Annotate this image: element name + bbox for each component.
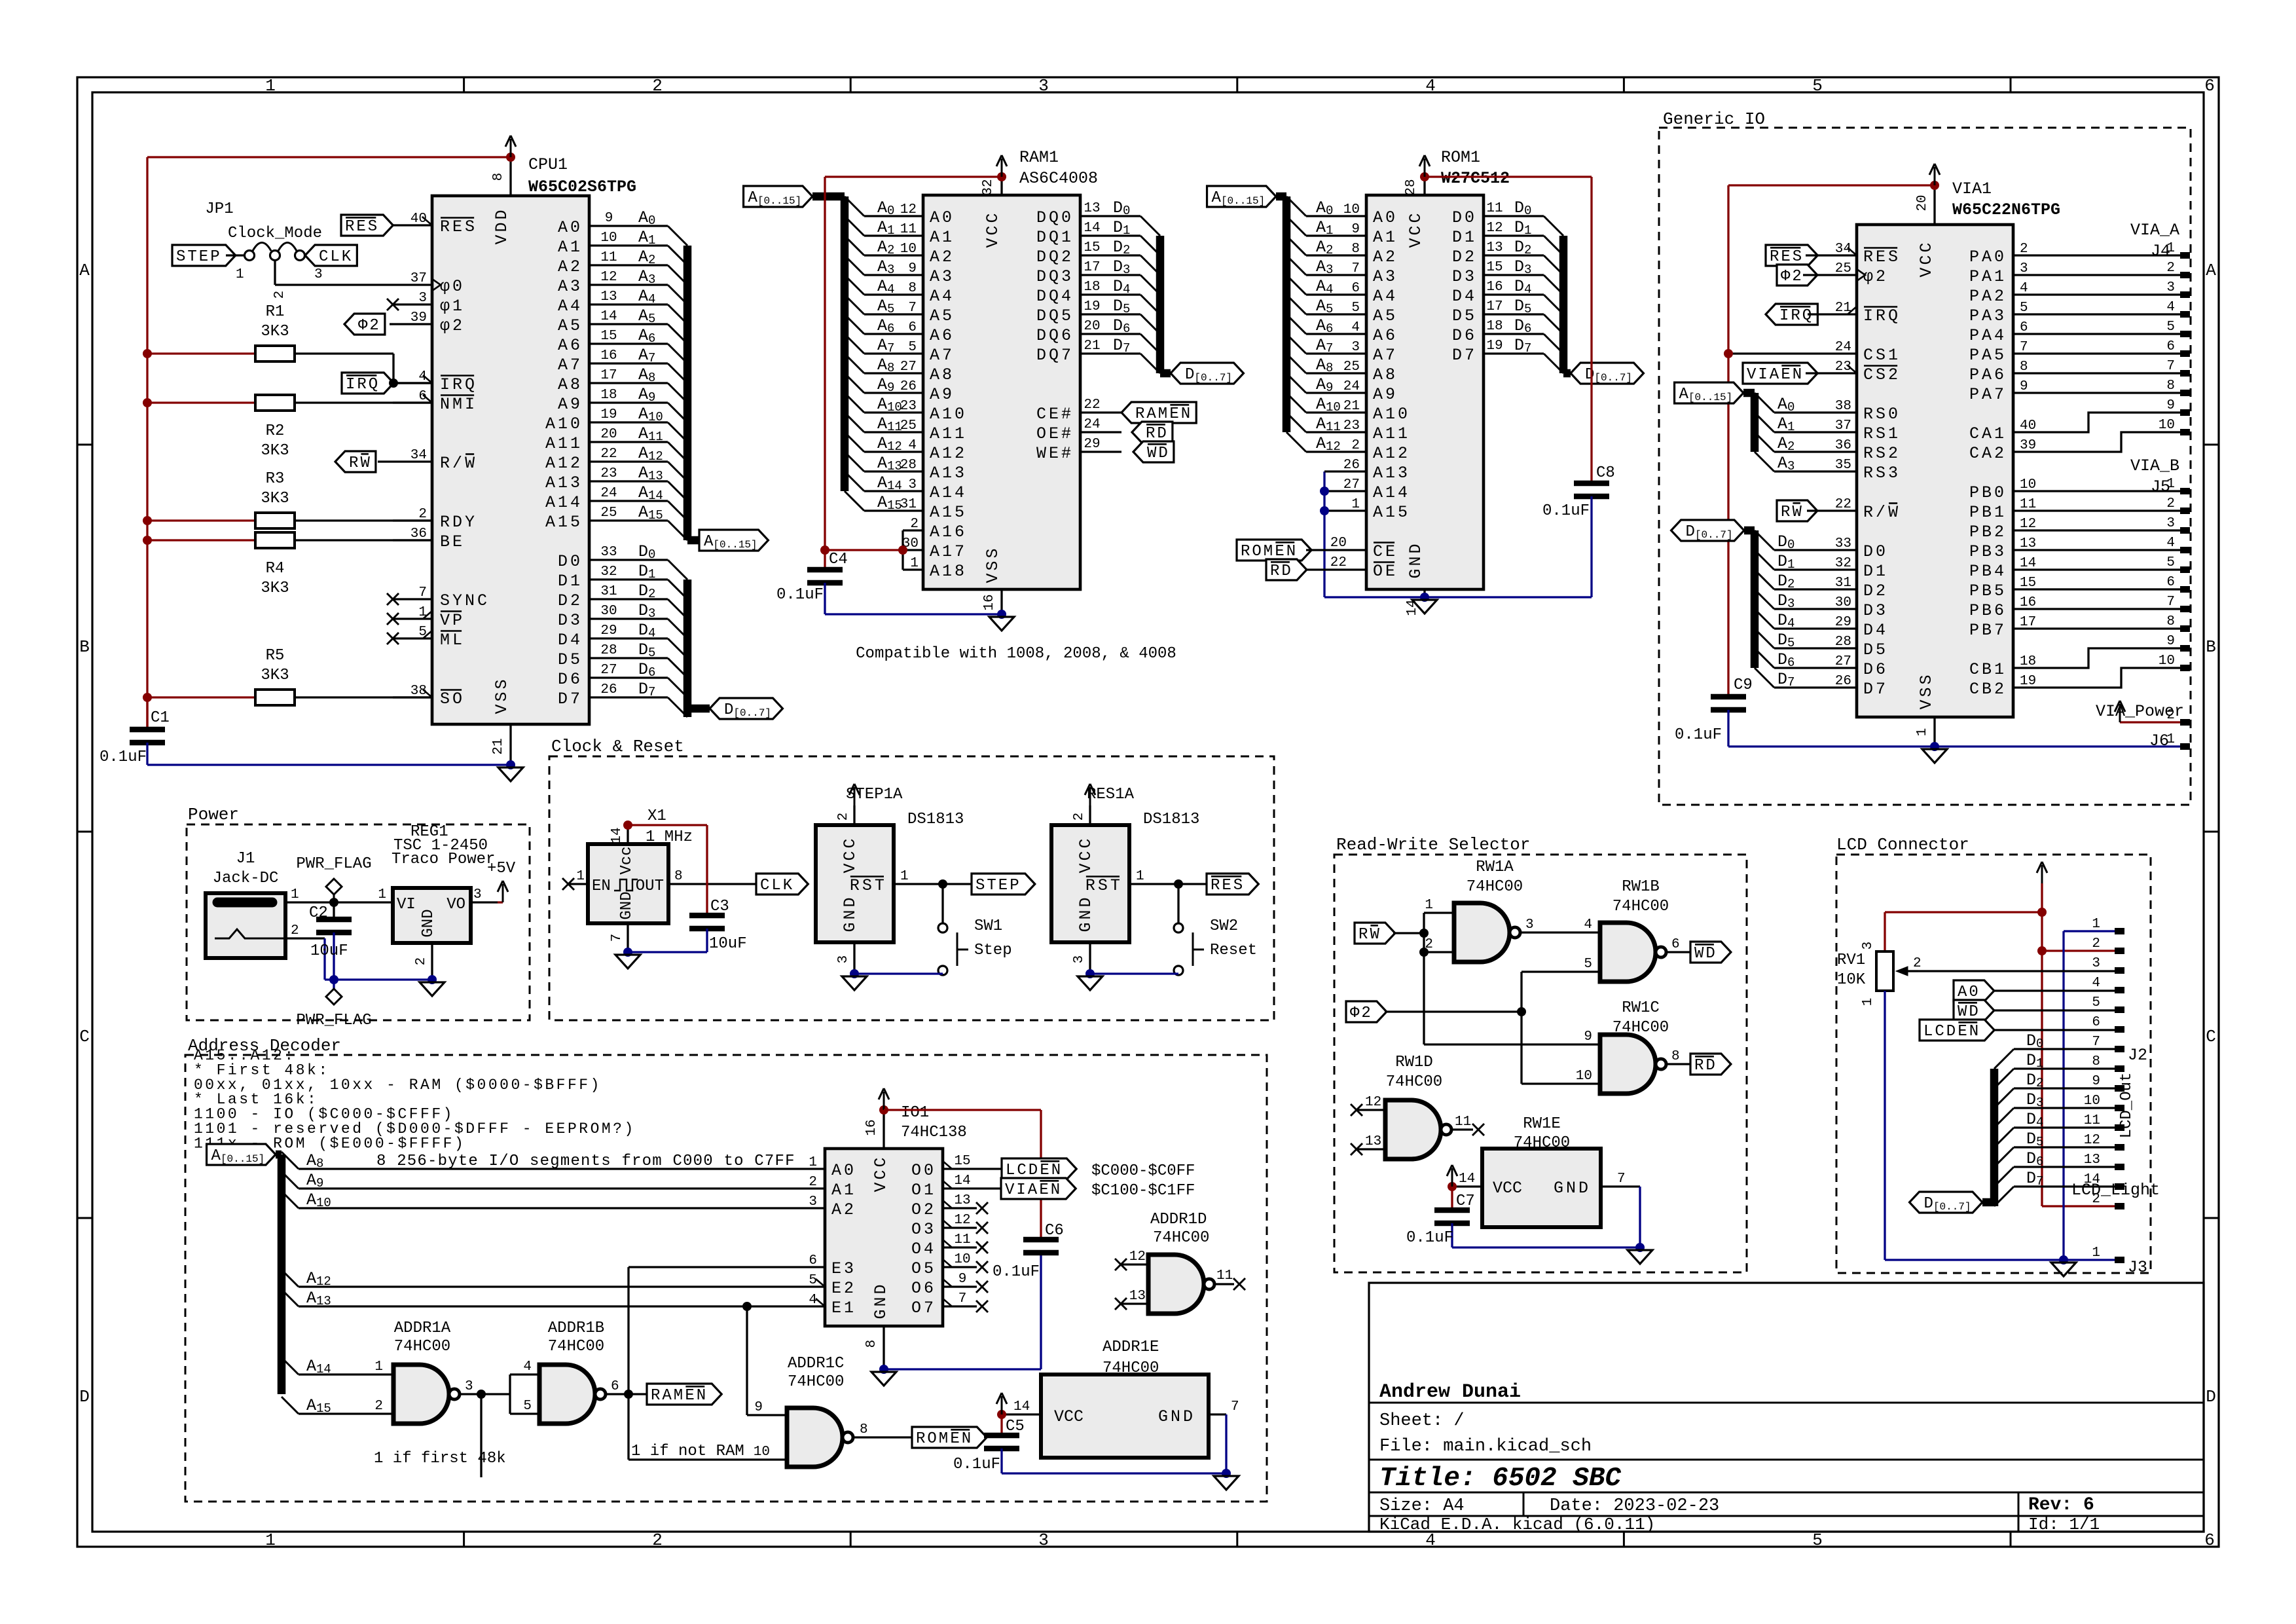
svg-text:A4: A4 <box>1373 287 1398 306</box>
svg-text:RES: RES <box>345 218 379 236</box>
svg-text:Rev: 6: Rev: 6 <box>2028 1495 2094 1515</box>
svg-text:10: 10 <box>2159 654 2175 669</box>
power VCC arrow ADDR1E <box>996 1393 1007 1419</box>
regulator REG1 TSC 1-2450 Traco Power <box>378 823 503 980</box>
svg-text:10: 10 <box>600 231 617 246</box>
svg-text:1 MHz: 1 MHz <box>646 828 693 846</box>
bus D[0..7] CPU <box>683 580 692 717</box>
svg-text:NMI: NMI <box>440 395 477 414</box>
flag WD at LCD <box>1954 1000 2115 1021</box>
svg-text:22: 22 <box>1330 555 1347 570</box>
svg-text:3: 3 <box>2166 280 2175 295</box>
svg-text:PA0: PA0 <box>1969 248 2007 267</box>
svg-text:SO: SO <box>440 690 465 709</box>
svg-text:7: 7 <box>2166 595 2175 610</box>
svg-text:A5: A5 <box>930 306 955 325</box>
svg-text:C7: C7 <box>1456 1192 1475 1210</box>
svg-text:O0: O0 <box>911 1161 936 1180</box>
svg-text:D3: D3 <box>1452 267 1477 286</box>
no-connect x CPU SYNC <box>387 593 399 605</box>
svg-text:13: 13 <box>2084 1153 2100 1168</box>
svg-text:EN: EN <box>950 1430 973 1448</box>
svg-text:1 if first 48k: 1 if first 48k <box>374 1450 506 1467</box>
svg-text:RW1E: RW1E <box>1523 1115 1561 1133</box>
svg-text:25: 25 <box>600 506 617 521</box>
svg-text:7: 7 <box>1231 1399 1239 1414</box>
svg-text:CPU1: CPU1 <box>528 155 568 174</box>
svg-text:37: 37 <box>410 271 427 286</box>
svg-text:RST: RST <box>1085 876 1123 895</box>
svg-text:R4: R4 <box>266 560 285 578</box>
svg-text:RD: RD <box>1270 563 1293 580</box>
svg-text:16: 16 <box>982 594 997 610</box>
svg-text:RS0: RS0 <box>1863 405 1901 424</box>
svg-text:ML: ML <box>440 631 465 650</box>
svg-text:11: 11 <box>1455 1115 1471 1130</box>
svg-text:4: 4 <box>2166 300 2175 315</box>
decoder address wires A8 A9 A10 <box>282 1151 825 1210</box>
svg-text:ADDR1C: ADDR1C <box>788 1355 844 1373</box>
svg-text:5: 5 <box>2166 320 2175 335</box>
svg-text:CS2: CS2 <box>1863 365 1901 384</box>
svg-text:J2: J2 <box>2128 1046 2147 1065</box>
svg-text:A13: A13 <box>1373 464 1410 483</box>
svg-text:3: 3 <box>1038 1530 1049 1550</box>
svg-text:Vcc: Vcc <box>618 846 636 874</box>
svg-text:PWR_FLAG: PWR_FLAG <box>296 1012 371 1029</box>
svg-text:23: 23 <box>600 466 617 481</box>
svg-text:28: 28 <box>1404 179 1419 195</box>
svg-text:E1: E1 <box>831 1299 856 1318</box>
svg-text:GND: GND <box>1076 895 1095 932</box>
svg-text:OUT: OUT <box>636 877 664 895</box>
Address Decoder section box <box>185 1036 1267 1502</box>
wire RW1E gnd <box>1452 1243 1645 1252</box>
svg-text:O1: O1 <box>911 1181 936 1200</box>
power flag PWR_FLAG bottom <box>296 975 371 1029</box>
svg-text:VCC: VCC <box>841 836 860 873</box>
svg-text:1: 1 <box>2166 241 2175 256</box>
svg-text:22: 22 <box>1835 497 1851 512</box>
svg-text:1: 1 <box>576 869 585 884</box>
svg-text:+5V: +5V <box>487 860 516 877</box>
svg-text:VDD: VDD <box>492 207 511 244</box>
connector J3 LCD_Light <box>2071 1181 2160 1277</box>
oscillator X1 1 MHz <box>568 807 756 952</box>
svg-text:SYNC: SYNC <box>440 591 490 610</box>
svg-text:O4: O4 <box>911 1240 936 1259</box>
svg-text:2: 2 <box>809 1175 817 1190</box>
svg-text:1 if not RAM: 1 if not RAM <box>631 1443 744 1460</box>
svg-text:12: 12 <box>1486 221 1503 236</box>
svg-text:Size: A4: Size: A4 <box>1379 1496 1465 1516</box>
svg-text:C3: C3 <box>710 898 729 915</box>
bus flag A[0..15] ROM <box>1207 186 1276 207</box>
no-connect x RW1D in12 <box>1351 1104 1362 1116</box>
svg-text:W: W <box>1370 926 1381 944</box>
svg-text:17: 17 <box>2020 615 2036 630</box>
resistor R1 3K3 <box>147 303 393 383</box>
connector J2 LCD_Out <box>2084 917 2147 1190</box>
svg-text:A16: A16 <box>930 523 967 542</box>
svg-text:GND: GND <box>1158 1407 1195 1426</box>
ground IO1 <box>871 1372 896 1386</box>
svg-text:3: 3 <box>2166 516 2175 531</box>
svg-text:File: main.kicad_sch: File: main.kicad_sch <box>1379 1437 1592 1456</box>
svg-text:ADDR1B: ADDR1B <box>548 1319 604 1337</box>
svg-text:3: 3 <box>1072 955 1087 964</box>
svg-text:7: 7 <box>2020 340 2028 355</box>
flag RES at CPU <box>341 215 393 236</box>
svg-text:4: 4 <box>2020 281 2028 296</box>
svg-text:2: 2 <box>2166 496 2175 511</box>
svg-text:PB3: PB3 <box>1969 542 2007 561</box>
bus D[0..7] RAM <box>1160 236 1171 373</box>
svg-text:A5: A5 <box>558 316 583 335</box>
power flag PWR_FLAG top <box>296 855 371 907</box>
capacitor C8 0.1uF <box>1542 464 1615 597</box>
LCD data wires bus entries <box>1994 1031 2115 1206</box>
CPU data pins D0-D7 with bus entries <box>558 542 687 717</box>
svg-text:PA2: PA2 <box>1969 287 2007 306</box>
svg-text:4: 4 <box>2166 536 2175 551</box>
svg-text:74HC00: 74HC00 <box>394 1338 450 1356</box>
svg-text:D6: D6 <box>1452 326 1477 345</box>
svg-text:GND: GND <box>841 895 860 932</box>
svg-text:A8: A8 <box>558 375 583 394</box>
svg-text:VCC: VCC <box>1076 836 1095 873</box>
svg-text:12: 12 <box>1129 1249 1146 1264</box>
svg-text:A3: A3 <box>930 267 955 286</box>
svg-text:W27C512: W27C512 <box>1441 169 1510 188</box>
svg-text:17: 17 <box>1486 299 1503 314</box>
no-connect x CPU ML <box>387 633 399 644</box>
svg-text:A9: A9 <box>558 395 583 414</box>
svg-text:28: 28 <box>1835 635 1851 650</box>
svg-text:11: 11 <box>954 1232 970 1247</box>
power VCC arrow RES1A <box>1085 784 1095 805</box>
LCD Connector section box <box>1836 835 2151 1273</box>
svg-text:10: 10 <box>2084 1094 2100 1109</box>
svg-text:R: R <box>349 454 360 472</box>
svg-text:0.1uF: 0.1uF <box>993 1263 1040 1281</box>
svg-text:VSS: VSS <box>1917 672 1936 709</box>
svg-text:6: 6 <box>2092 1015 2100 1030</box>
svg-text:6: 6 <box>2204 1530 2215 1550</box>
svg-text:OE#: OE# <box>1036 424 1074 443</box>
ground STEP1A <box>842 976 867 990</box>
svg-text:2: 2 <box>374 1399 383 1414</box>
svg-text:6: 6 <box>2166 339 2175 354</box>
ROM1 data pin wires with bus entries <box>1484 198 1563 373</box>
svg-text:D2: D2 <box>558 591 583 610</box>
flag Phi2 input <box>1346 1001 1522 1022</box>
svg-text:STEP: STEP <box>176 248 222 266</box>
junction R3 rail <box>143 516 152 525</box>
power VCC arrow RW1E <box>1447 1165 1457 1191</box>
svg-text:W: W <box>360 454 371 472</box>
svg-text:DQ4: DQ4 <box>1036 287 1074 306</box>
svg-text:C2: C2 <box>309 904 328 922</box>
svg-text:WD: WD <box>1694 945 1717 963</box>
svg-text:ROM: ROM <box>916 1430 950 1448</box>
svg-text:W: W <box>1888 503 1901 522</box>
svg-text:VCC: VCC <box>983 210 1002 248</box>
nand gate ADDR1D 74HC00 unused <box>1121 1211 1234 1314</box>
svg-text:15: 15 <box>1084 240 1100 255</box>
power +5V arrow <box>487 860 516 902</box>
svg-text:D2: D2 <box>1863 581 1888 600</box>
svg-text:11: 11 <box>2084 1113 2100 1128</box>
svg-text:10K: 10K <box>1837 971 1866 989</box>
svg-text:2: 2 <box>414 957 429 966</box>
svg-text:32: 32 <box>600 564 617 580</box>
svg-text:Jack-DC: Jack-DC <box>213 870 279 887</box>
svg-text:PA4: PA4 <box>1969 326 2007 345</box>
svg-text:A8: A8 <box>1373 365 1398 384</box>
svg-text:B: B <box>2206 637 2216 657</box>
svg-text:8: 8 <box>2166 614 2175 629</box>
svg-text:11: 11 <box>1216 1268 1233 1283</box>
svg-text:Andrew Dunai: Andrew Dunai <box>1379 1381 1521 1403</box>
svg-text:26: 26 <box>600 682 617 697</box>
svg-text:8: 8 <box>2092 1054 2100 1069</box>
ROM1 tie-low bracket A13-A15 <box>1320 471 1366 597</box>
svg-text:20: 20 <box>1084 319 1100 334</box>
svg-text:IRQ: IRQ <box>346 376 380 394</box>
svg-text:A15: A15 <box>545 513 583 532</box>
svg-text:1: 1 <box>2092 917 2100 932</box>
svg-text:RES: RES <box>1770 248 1804 266</box>
svg-text:1: 1 <box>378 887 386 902</box>
svg-text:R: R <box>1358 926 1370 944</box>
flag RD output <box>1690 1054 1731 1075</box>
power VCC arrow STEP1A <box>849 784 860 805</box>
bus A[0..15] RAM <box>812 196 845 491</box>
svg-text:13: 13 <box>1486 240 1503 255</box>
svg-text:18: 18 <box>600 388 617 403</box>
svg-text:D4: D4 <box>1863 621 1888 640</box>
svg-text:W65C22N6TPG: W65C22N6TPG <box>1952 200 2060 219</box>
svg-text:26: 26 <box>1835 674 1851 689</box>
svg-text:74HC00: 74HC00 <box>548 1338 604 1356</box>
svg-text:13: 13 <box>1129 1289 1146 1304</box>
svg-text:CB1: CB1 <box>1969 660 2007 679</box>
svg-text:3: 3 <box>314 267 323 282</box>
supervisor STEP1A DS1813 <box>816 786 972 974</box>
svg-text:A9: A9 <box>1373 385 1398 404</box>
svg-text:13: 13 <box>2020 536 2036 551</box>
svg-text:C: C <box>2206 1027 2216 1046</box>
svg-text:KiCad E.D.A. kicad (6.0.11): KiCad E.D.A. kicad (6.0.11) <box>1379 1515 1655 1534</box>
svg-text:A0: A0 <box>930 208 955 227</box>
RAM1 tie-high bracket A16-A18 <box>820 530 923 570</box>
wire IO1 VCC to C6 <box>884 1110 1041 1240</box>
svg-text:20: 20 <box>600 427 617 442</box>
svg-text:10: 10 <box>2159 418 2175 433</box>
svg-text:9: 9 <box>2166 398 2175 413</box>
svg-text:CA2: CA2 <box>1969 444 2007 463</box>
svg-text:5: 5 <box>809 1273 817 1288</box>
svg-text:J3: J3 <box>2128 1258 2147 1277</box>
svg-text:16: 16 <box>2020 595 2036 610</box>
svg-text:0.1uF: 0.1uF <box>776 586 824 604</box>
wire VCC ROM <box>1425 177 1592 483</box>
svg-text:A13: A13 <box>545 473 583 492</box>
svg-text:74HC00: 74HC00 <box>1467 878 1523 896</box>
svg-text:D1: D1 <box>1863 562 1888 581</box>
svg-text:D7: D7 <box>1452 346 1477 365</box>
wire RES1A gnd <box>1085 969 1178 978</box>
svg-text:Generic IO: Generic IO <box>1663 109 1765 129</box>
svg-text:6: 6 <box>2166 575 2175 590</box>
ground LCD <box>2051 1263 2076 1276</box>
bus A[0..15] decoder <box>276 1154 282 1394</box>
Generic IO section box <box>1659 109 2191 805</box>
svg-text:CA1: CA1 <box>1969 424 2007 443</box>
svg-text:34: 34 <box>410 448 427 463</box>
svg-text:18: 18 <box>1084 280 1100 295</box>
svg-text:8 256-byte I/O segments from C: 8 256-byte I/O segments from C000 to C7F… <box>376 1153 795 1170</box>
svg-text:74HC00: 74HC00 <box>1613 898 1669 915</box>
svg-text:3: 3 <box>2020 261 2028 276</box>
flag LCDEN at O0 <box>1002 1158 1076 1179</box>
svg-text:D2: D2 <box>1452 248 1477 267</box>
CPU1 W65C02S6TPG <box>393 155 636 765</box>
flag RAMEN at RAM CE <box>1121 402 1196 423</box>
wire ADDR1E gnd <box>1002 1469 1231 1478</box>
svg-text:30: 30 <box>1835 595 1851 610</box>
svg-text:2: 2 <box>2092 936 2100 951</box>
svg-text:CLK: CLK <box>760 877 794 895</box>
svg-text:13: 13 <box>1084 201 1100 216</box>
svg-text:A14: A14 <box>1373 483 1410 502</box>
wire RW to RW1A inputs <box>1419 913 1600 1044</box>
svg-text:19: 19 <box>600 407 617 422</box>
wire ROM GND <box>1324 593 1592 602</box>
nand gate RW1D 74HC00 unused <box>1357 1054 1473 1159</box>
resistor R2 3K3 <box>147 395 432 460</box>
svg-text:RAM: RAM <box>651 1387 685 1405</box>
svg-text:1: 1 <box>1136 869 1144 884</box>
svg-text:29: 29 <box>600 623 617 638</box>
svg-text:GND: GND <box>1554 1179 1591 1198</box>
svg-text:Compatible with 1008, 2008, &: Compatible with 1008, 2008, & 4008 <box>856 645 1176 663</box>
no-connect x CPU VP <box>387 613 399 625</box>
svg-text:15: 15 <box>954 1154 970 1169</box>
svg-text:EN: EN <box>592 877 611 895</box>
svg-text:JP1: JP1 <box>205 200 233 218</box>
svg-text:CE#: CE# <box>1036 405 1074 424</box>
svg-text:Title: 6502 SBC: Title: 6502 SBC <box>1379 1464 1621 1494</box>
capacitor C9 0.1uF <box>1675 676 1753 747</box>
svg-text:3: 3 <box>1861 942 1876 950</box>
svg-text:PA6: PA6 <box>1969 365 2007 384</box>
svg-text:GND: GND <box>420 909 437 937</box>
svg-text:VIA: VIA <box>1747 366 1781 384</box>
svg-text:8: 8 <box>491 173 506 181</box>
svg-text:φ2: φ2 <box>1863 267 1888 286</box>
svg-text:12: 12 <box>954 1213 970 1228</box>
flag Phi2 at VIA <box>1777 265 1817 286</box>
svg-text:8: 8 <box>864 1340 879 1348</box>
power VCC arrow IO1 <box>879 1088 889 1115</box>
svg-text:A12: A12 <box>545 454 583 473</box>
svg-text:C8: C8 <box>1596 464 1615 482</box>
svg-text:WD: WD <box>1958 1003 1980 1021</box>
svg-text:16: 16 <box>1486 280 1503 295</box>
decoder IO1 74HC138 <box>816 1104 1002 1369</box>
svg-text:Date: 2023-02-23: Date: 2023-02-23 <box>1550 1496 1719 1516</box>
svg-text:14: 14 <box>954 1173 970 1189</box>
svg-text:PB1: PB1 <box>1969 503 2007 522</box>
svg-text:17: 17 <box>600 368 617 383</box>
svg-text:B: B <box>79 637 90 657</box>
svg-text:D7: D7 <box>1863 680 1888 699</box>
svg-text:DQ6: DQ6 <box>1036 326 1074 345</box>
ground ADDR1E <box>1214 1476 1239 1490</box>
svg-text:RS3: RS3 <box>1863 464 1901 483</box>
VIA1 W65C22N6TPG <box>1817 179 2060 747</box>
svg-text:GND: GND <box>871 1282 890 1319</box>
svg-text:$C100-$C1FF: $C100-$C1FF <box>1091 1182 1195 1200</box>
resistor R5 3K3 <box>147 647 432 705</box>
nand gate RW1B 74HC00 <box>1584 878 1690 982</box>
svg-text:1: 1 <box>2166 732 2175 747</box>
svg-text:$C000-$C0FF: $C000-$C0FF <box>1091 1162 1195 1180</box>
svg-text:18: 18 <box>2020 654 2036 669</box>
svg-text:A5: A5 <box>1373 306 1398 325</box>
svg-text:VIA: VIA <box>1005 1181 1039 1199</box>
svg-text:EN: EN <box>685 1387 708 1405</box>
svg-text:PA5: PA5 <box>1969 346 2007 365</box>
nand gate RW1A 74HC00 <box>1425 858 1600 962</box>
svg-text:PB4: PB4 <box>1969 562 2007 581</box>
svg-text:0.1uF: 0.1uF <box>1675 726 1722 744</box>
svg-text:9: 9 <box>2020 379 2028 394</box>
address map comment text <box>194 1047 636 1152</box>
svg-text:3: 3 <box>836 955 851 964</box>
svg-text:A6: A6 <box>558 336 583 355</box>
svg-text:A15: A15 <box>930 503 967 522</box>
svg-text:A3: A3 <box>1373 267 1398 286</box>
CPU address pins A0-A15 with bus entries <box>545 208 687 540</box>
svg-text:1: 1 <box>265 1530 276 1550</box>
connector J1 Jack-DC <box>206 850 393 980</box>
svg-text:A7: A7 <box>558 356 583 375</box>
svg-text:DQ5: DQ5 <box>1036 306 1074 325</box>
wire VCC VIA <box>1728 185 1935 697</box>
svg-text:A12: A12 <box>930 444 967 463</box>
svg-text:12: 12 <box>2084 1133 2100 1148</box>
svg-text:Id: 1/1: Id: 1/1 <box>2028 1515 2100 1534</box>
capacitor C1 0.1uF <box>100 697 170 766</box>
svg-text:RAM1: RAM1 <box>1019 148 1059 167</box>
svg-text:O3: O3 <box>911 1220 936 1239</box>
svg-text:10: 10 <box>2020 477 2036 492</box>
Clock and Reset section box <box>549 737 1274 1020</box>
svg-text:2: 2 <box>272 291 287 299</box>
wire VCC RAM <box>825 177 1002 550</box>
svg-text:6: 6 <box>2020 320 2028 335</box>
RAM1 chip enable wires <box>1080 397 1121 452</box>
svg-text:GND: GND <box>1406 541 1425 578</box>
svg-text:ROM: ROM <box>1241 543 1275 561</box>
svg-text:21: 21 <box>1084 339 1100 354</box>
flag RD at ROM OE <box>1266 559 1366 580</box>
svg-text:A3: A3 <box>558 277 583 296</box>
svg-text:DQ2: DQ2 <box>1036 248 1074 267</box>
